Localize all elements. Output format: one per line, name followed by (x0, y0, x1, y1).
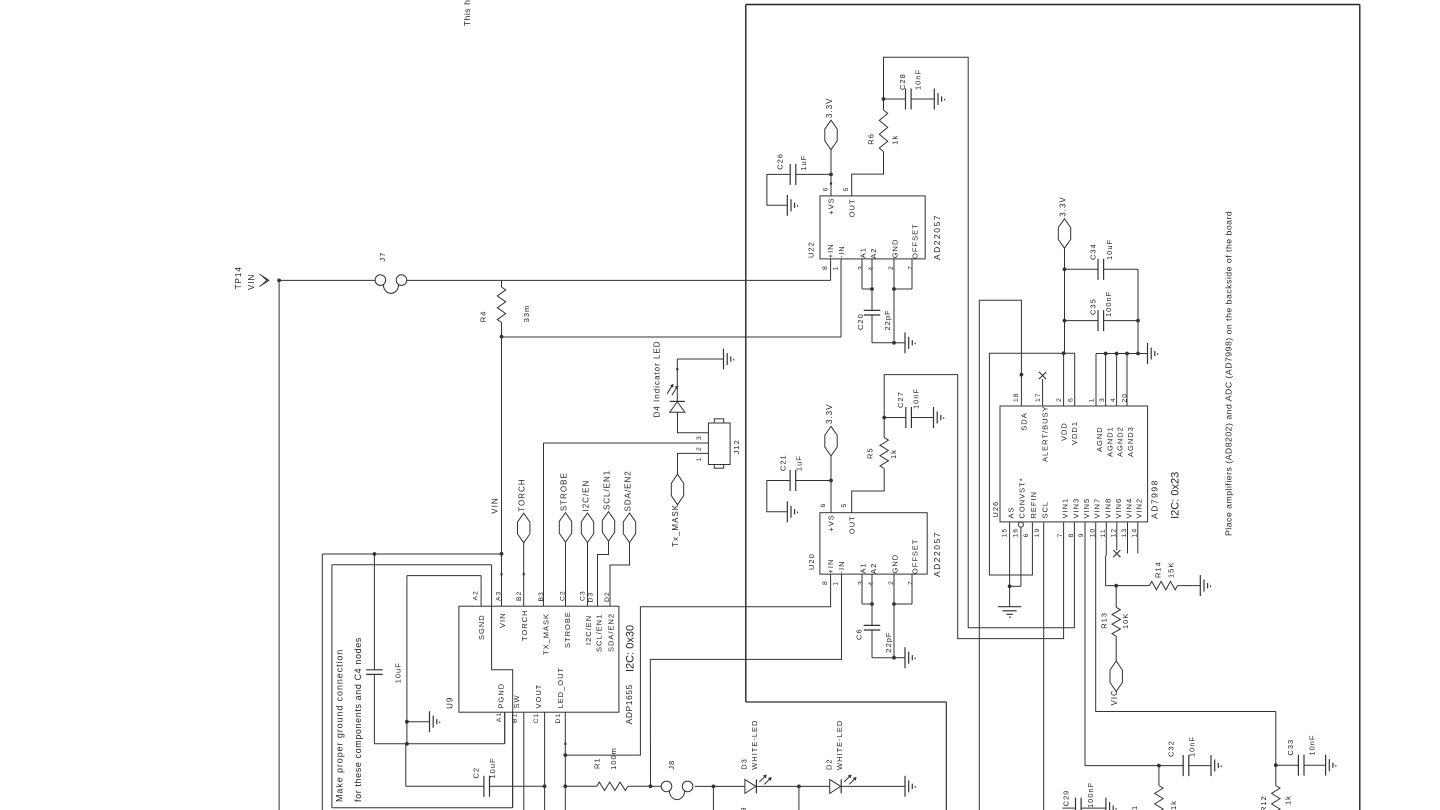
svg-text:R6: R6 (866, 133, 875, 145)
svg-text:1k: 1k (891, 135, 900, 145)
svg-text:1k: 1k (1284, 795, 1293, 805)
svg-text:3.3V: 3.3V (825, 404, 834, 424)
svg-text:14: 14 (1131, 528, 1138, 538)
svg-text:Make proper ground connection: Make proper ground connection (335, 649, 345, 802)
svg-text:J7: J7 (378, 252, 387, 262)
svg-text:A2: A2 (472, 590, 479, 600)
svg-text:GND: GND (891, 239, 900, 259)
svg-text:AGND: AGND (1095, 426, 1104, 452)
svg-text:2: 2 (1056, 397, 1063, 402)
svg-text:7: 7 (1057, 533, 1064, 538)
svg-text:15K: 15K (1167, 562, 1176, 578)
svg-text:22pF: 22pF (884, 631, 893, 652)
svg-text:VIN5: VIN5 (1082, 498, 1091, 519)
svg-text:AD7998: AD7998 (1149, 479, 1159, 519)
svg-text:R12: R12 (1259, 795, 1268, 810)
svg-text:C3: C3 (580, 590, 587, 601)
svg-text:A3: A3 (495, 591, 502, 601)
svg-text:AGND3: AGND3 (1126, 426, 1135, 457)
svg-text:VIN: VIN (498, 612, 507, 628)
svg-text:13: 13 (1121, 528, 1128, 538)
svg-text:VIN: VIN (490, 497, 499, 513)
svg-text:R14: R14 (1154, 561, 1163, 578)
svg-text:100nF: 100nF (1086, 782, 1095, 808)
svg-text:1k: 1k (889, 449, 898, 459)
svg-text:C1: C1 (533, 713, 540, 724)
svg-text:10uF: 10uF (394, 662, 403, 683)
svg-text:10nF: 10nF (1187, 736, 1196, 757)
svg-text:J12: J12 (732, 439, 741, 454)
svg-text:VOUT: VOUT (534, 684, 543, 709)
svg-text:+VS: +VS (827, 197, 836, 214)
svg-text:J8: J8 (667, 760, 676, 770)
svg-text:7: 7 (908, 265, 915, 270)
svg-text:VDD: VDD (1060, 422, 1069, 441)
svg-text:SW: SW (512, 694, 521, 708)
svg-text:A2: A2 (869, 563, 878, 574)
svg-text:I2C: 0x30: I2C: 0x30 (625, 625, 637, 672)
svg-text:SDA/EN2: SDA/EN2 (607, 613, 616, 652)
svg-text:AGND2: AGND2 (1116, 426, 1125, 457)
svg-text:CONVST*: CONVST* (1018, 477, 1027, 518)
svg-text:I2C/EN: I2C/EN (582, 480, 591, 512)
svg-text:OUT: OUT (847, 515, 856, 534)
svg-text:2: 2 (696, 446, 703, 451)
svg-text:10uF: 10uF (1105, 239, 1114, 260)
svg-text:1: 1 (1089, 398, 1096, 403)
svg-text:C29: C29 (1062, 790, 1071, 807)
svg-text:+VS: +VS (827, 514, 836, 531)
svg-text:TORCH: TORCH (518, 478, 527, 511)
svg-text:REFIN: REFIN (1029, 491, 1038, 519)
svg-text:B2: B2 (516, 591, 523, 601)
svg-text:C33: C33 (1286, 739, 1295, 756)
svg-text:AD22057: AD22057 (932, 214, 942, 260)
svg-text:R13: R13 (1100, 612, 1109, 629)
svg-text:WHITE-LED: WHITE-LED (835, 720, 844, 770)
svg-text:VIN1: VIN1 (1061, 498, 1070, 519)
svg-text:C28: C28 (898, 73, 907, 90)
svg-text:1k: 1k (1169, 800, 1178, 810)
svg-text:8: 8 (1068, 533, 1075, 538)
svg-text:17: 17 (1035, 392, 1042, 402)
svg-text:8: 8 (822, 265, 829, 270)
svg-text:100m: 100m (609, 747, 618, 770)
svg-text:1: 1 (832, 266, 839, 271)
svg-text:AS: AS (1007, 506, 1016, 518)
svg-text:6: 6 (1067, 397, 1074, 402)
svg-text:VIN7: VIN7 (1093, 498, 1102, 519)
svg-text:1: 1 (1130, 805, 1139, 810)
svg-text:Tx_MASK: Tx_MASK (671, 504, 680, 547)
svg-text:PGND: PGND (496, 683, 505, 709)
svg-text:SCL: SCL (1041, 501, 1050, 519)
svg-text:C34: C34 (1089, 243, 1098, 260)
svg-text:OFFSET: OFFSET (911, 539, 920, 575)
svg-text:16: 16 (1012, 528, 1019, 538)
svg-text:10nF: 10nF (911, 388, 920, 409)
svg-text:5: 5 (841, 503, 848, 508)
svg-text:1uF: 1uF (799, 155, 808, 171)
svg-text:22pF: 22pF (883, 309, 892, 330)
svg-text:VIC: VIC (1110, 689, 1119, 705)
svg-text:R5: R5 (866, 447, 875, 459)
svg-text:ALERT/BUSY: ALERT/BUSY (1041, 405, 1050, 462)
svg-text:R1: R1 (592, 757, 601, 769)
svg-text:U22: U22 (807, 241, 816, 258)
svg-text:SDA: SDA (1020, 412, 1029, 430)
svg-text:3: 3 (1099, 397, 1106, 402)
svg-text:1: 1 (696, 457, 703, 462)
svg-text:OFFSET: OFFSET (911, 223, 920, 259)
svg-text:D1: D1 (555, 713, 562, 724)
svg-text:VIN3: VIN3 (1071, 498, 1080, 519)
svg-text:C20: C20 (856, 313, 865, 330)
svg-text:10K: 10K (1121, 613, 1130, 629)
svg-text:I2C: 0x23: I2C: 0x23 (1169, 472, 1181, 519)
svg-text:OUT: OUT (847, 198, 856, 217)
svg-text:19: 19 (1034, 528, 1041, 538)
svg-text:1: 1 (832, 581, 839, 586)
svg-text:C2: C2 (472, 767, 481, 779)
svg-text:6: 6 (820, 503, 827, 508)
svg-text:-IN: -IN (837, 245, 846, 258)
svg-text:AGND1: AGND1 (1105, 426, 1114, 457)
svg-text:VIN2: VIN2 (1135, 498, 1144, 519)
svg-text:10uF: 10uF (488, 757, 497, 778)
svg-text:U26: U26 (991, 501, 1000, 518)
svg-text:SDA/EN2: SDA/EN2 (624, 470, 633, 511)
svg-text:C32: C32 (1167, 740, 1176, 757)
svg-text:D2: D2 (824, 758, 833, 770)
svg-text:U9: U9 (446, 697, 455, 709)
svg-text:AD22057: AD22057 (932, 531, 942, 577)
svg-text:C9: C9 (739, 806, 748, 810)
svg-text:3: 3 (858, 580, 865, 585)
svg-text:4: 4 (868, 266, 875, 271)
svg-text:3: 3 (696, 435, 703, 440)
svg-text:WHITE-LED: WHITE-LED (750, 720, 759, 770)
svg-text:ADP1655: ADP1655 (624, 684, 634, 724)
svg-text:6: 6 (1023, 533, 1030, 538)
svg-text:3: 3 (858, 265, 865, 270)
svg-text:1uF: 1uF (795, 455, 804, 471)
svg-text:SCL/EN1: SCL/EN1 (603, 470, 612, 510)
svg-text:-IN: -IN (837, 561, 846, 574)
svg-text:C35: C35 (1089, 298, 1098, 315)
svg-text:U20: U20 (807, 553, 816, 570)
svg-text:STROBE: STROBE (563, 611, 572, 648)
svg-text:100nF: 100nF (1104, 291, 1113, 317)
svg-text:C26: C26 (776, 153, 785, 170)
svg-text:18: 18 (1013, 392, 1020, 402)
svg-text:6: 6 (823, 187, 830, 192)
svg-text:R4: R4 (479, 311, 488, 323)
svg-text:5: 5 (843, 187, 850, 192)
svg-text:This h: This h (462, 0, 472, 26)
svg-text:SCL/EN1: SCL/EN1 (595, 614, 604, 652)
svg-text:GND: GND (891, 554, 900, 574)
svg-text:TORCH: TORCH (520, 609, 529, 641)
svg-text:D4 Indicator LED: D4 Indicator LED (653, 340, 662, 417)
svg-text:33m: 33m (522, 305, 531, 323)
svg-text:+IN: +IN (826, 559, 835, 574)
svg-text:10nF: 10nF (1308, 734, 1317, 755)
svg-text:I2C/EN: I2C/EN (584, 615, 593, 645)
svg-text:3.3V: 3.3V (1059, 196, 1068, 216)
svg-text:D3: D3 (739, 758, 748, 770)
svg-text:LED_OUT: LED_OUT (556, 667, 565, 709)
svg-text:A1: A1 (859, 562, 868, 573)
svg-text:VIN6: VIN6 (1114, 498, 1123, 519)
svg-text:3.3V: 3.3V (825, 98, 834, 118)
svg-text:9: 9 (1078, 533, 1085, 538)
svg-text:Place amplifiers (AD8202) and: Place amplifiers (AD8202) and ADC (AD799… (1224, 211, 1234, 536)
svg-text:SGND: SGND (477, 614, 486, 640)
svg-text:+IN: +IN (826, 243, 835, 258)
svg-text:15: 15 (1002, 528, 1009, 538)
svg-text:10nF: 10nF (914, 69, 923, 90)
svg-text:12: 12 (1110, 528, 1117, 538)
svg-text:C27: C27 (896, 391, 905, 408)
svg-text:C6: C6 (855, 628, 864, 640)
svg-text:TP14: TP14 (234, 266, 243, 289)
svg-text:for these components and C4 no: for these components and C4 nodes (353, 637, 363, 802)
svg-text:A1: A1 (859, 247, 868, 258)
svg-text:A2: A2 (869, 248, 878, 259)
svg-text:VIN8: VIN8 (1103, 498, 1112, 519)
svg-text:TX_MASK: TX_MASK (542, 613, 551, 655)
svg-text:VIN: VIN (247, 274, 256, 290)
svg-text:VDD1: VDD1 (1070, 421, 1079, 445)
svg-text:STROBE: STROBE (560, 472, 569, 511)
svg-text:4: 4 (868, 581, 875, 586)
svg-text:D3: D3 (588, 592, 595, 603)
svg-text:C21: C21 (778, 454, 787, 471)
svg-text:A1: A1 (496, 712, 503, 722)
svg-text:4: 4 (1110, 397, 1117, 402)
svg-text:7: 7 (908, 580, 915, 585)
svg-text:8: 8 (822, 580, 829, 585)
svg-text:VIN4: VIN4 (1124, 498, 1133, 519)
